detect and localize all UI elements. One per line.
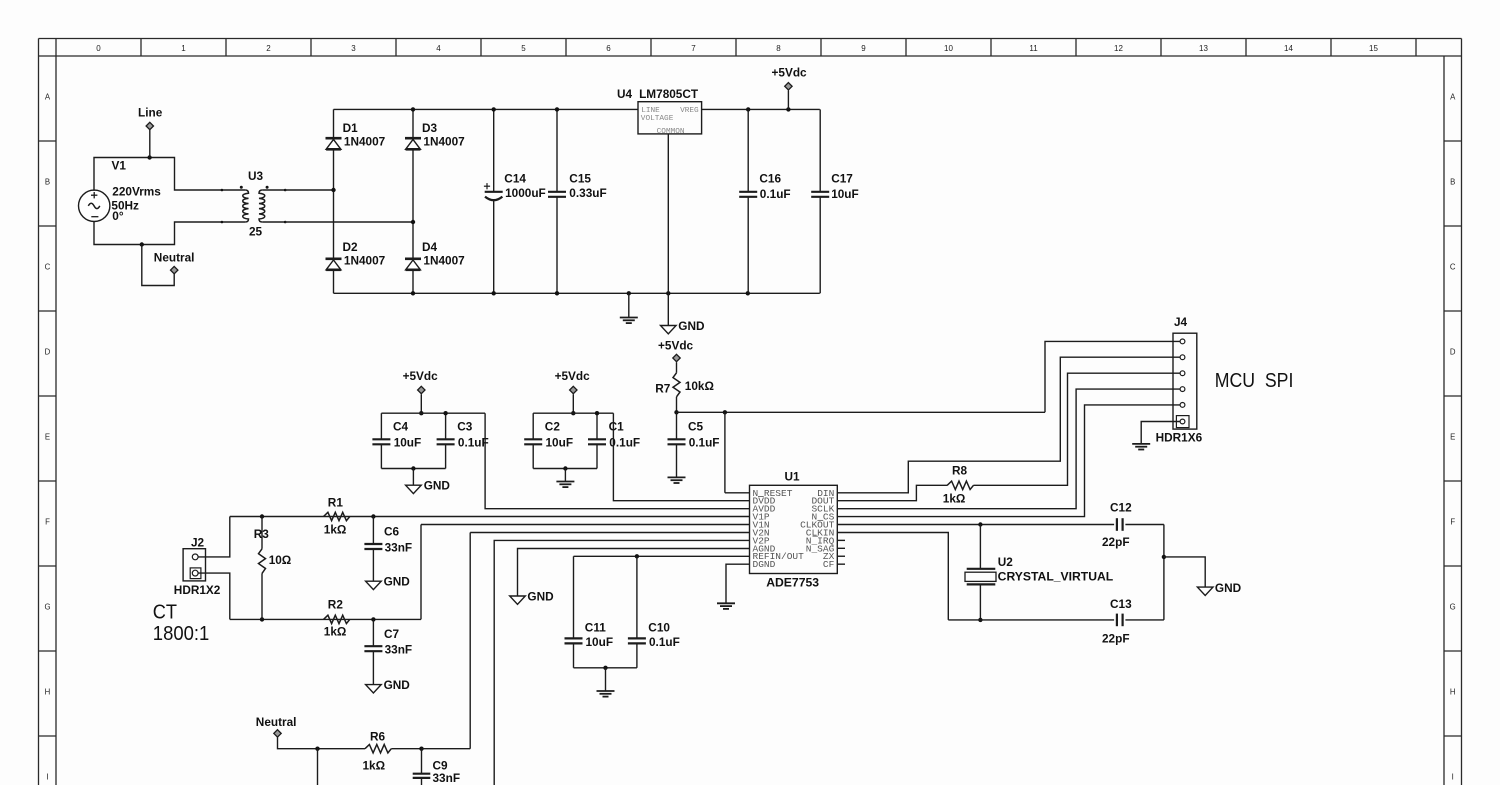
svg-text:1kΩ: 1kΩ xyxy=(363,759,386,773)
svg-text:R6: R6 xyxy=(370,730,386,744)
svg-text:I: I xyxy=(1452,773,1454,782)
svg-text:9: 9 xyxy=(861,44,866,53)
svg-text:U1: U1 xyxy=(785,469,801,483)
svg-text:10uF: 10uF xyxy=(831,187,859,201)
svg-text:A: A xyxy=(1450,93,1456,102)
svg-text:R8: R8 xyxy=(952,464,968,478)
svg-text:0.1uF: 0.1uF xyxy=(689,436,720,450)
svg-text:10: 10 xyxy=(944,44,953,53)
svg-text:C: C xyxy=(45,263,51,272)
svg-text:D: D xyxy=(45,348,51,357)
svg-text:H: H xyxy=(45,688,51,697)
svg-text:10kΩ: 10kΩ xyxy=(685,379,714,393)
svg-text:10uF: 10uF xyxy=(586,635,614,649)
svg-text:C5: C5 xyxy=(688,420,704,434)
svg-text:Line: Line xyxy=(138,106,163,120)
svg-text:Neutral: Neutral xyxy=(154,251,195,265)
svg-text:C12: C12 xyxy=(1110,501,1132,515)
svg-text:+5Vdc: +5Vdc xyxy=(403,369,439,383)
svg-text:Neutral: Neutral xyxy=(256,715,297,729)
svg-text:C15: C15 xyxy=(569,172,591,186)
svg-text:R2: R2 xyxy=(328,598,344,612)
svg-text:C7: C7 xyxy=(384,627,400,641)
svg-text:1kΩ: 1kΩ xyxy=(324,625,347,639)
svg-text:22pF: 22pF xyxy=(1102,632,1130,646)
svg-text:A: A xyxy=(45,93,51,102)
svg-text:6: 6 xyxy=(606,44,611,53)
svg-text:HDR1X2: HDR1X2 xyxy=(174,583,221,597)
svg-text:0.1uF: 0.1uF xyxy=(458,436,489,450)
svg-text:GND: GND xyxy=(384,575,411,589)
svg-text:0.1uF: 0.1uF xyxy=(649,635,680,649)
svg-text:GND: GND xyxy=(678,319,705,333)
svg-text:E: E xyxy=(1450,433,1455,442)
svg-text:HDR1X6: HDR1X6 xyxy=(1156,431,1203,445)
svg-text:LM7805CT: LM7805CT xyxy=(639,87,699,101)
svg-text:D: D xyxy=(1450,348,1456,357)
svg-text:1000uF: 1000uF xyxy=(505,186,546,200)
svg-text:C16: C16 xyxy=(759,172,781,186)
svg-text:C: C xyxy=(1450,263,1456,272)
svg-text:B: B xyxy=(45,178,50,187)
svg-text:ADE7753: ADE7753 xyxy=(766,575,819,589)
svg-text:0.33uF: 0.33uF xyxy=(569,186,606,200)
svg-text:5: 5 xyxy=(521,44,526,53)
svg-text:E: E xyxy=(45,433,50,442)
svg-text:C14: C14 xyxy=(504,172,526,186)
svg-text:GND: GND xyxy=(1215,581,1242,595)
svg-text:1: 1 xyxy=(181,44,186,53)
svg-text:33nF: 33nF xyxy=(385,540,413,554)
svg-text:VREG: VREG xyxy=(680,107,699,115)
svg-text:1N4007: 1N4007 xyxy=(423,135,465,149)
svg-text:VOLTAGE: VOLTAGE xyxy=(641,115,674,123)
svg-text:8: 8 xyxy=(776,44,781,53)
svg-text:C3: C3 xyxy=(457,420,473,434)
svg-text:G: G xyxy=(1450,603,1456,612)
svg-text:D4: D4 xyxy=(422,240,438,254)
svg-text:10uF: 10uF xyxy=(546,436,574,450)
svg-text:J4: J4 xyxy=(1174,315,1188,329)
svg-text:3: 3 xyxy=(351,44,356,53)
svg-text:R1: R1 xyxy=(328,495,344,509)
svg-text:V1: V1 xyxy=(112,159,127,173)
svg-text:1N4007: 1N4007 xyxy=(423,254,465,268)
svg-text:C13: C13 xyxy=(1110,597,1132,611)
svg-text:CF: CF xyxy=(823,559,835,570)
svg-text:J2: J2 xyxy=(191,536,205,550)
svg-text:11: 11 xyxy=(1029,44,1038,53)
svg-text:GND: GND xyxy=(527,590,554,604)
svg-text:+5Vdc: +5Vdc xyxy=(772,66,808,80)
svg-text:D3: D3 xyxy=(422,121,438,135)
svg-text:C17: C17 xyxy=(831,172,853,186)
svg-text:25: 25 xyxy=(249,225,263,239)
svg-text:F: F xyxy=(1450,518,1455,527)
svg-text:COMMON: COMMON xyxy=(657,128,685,136)
svg-text:CT: CT xyxy=(153,601,178,624)
svg-text:D1: D1 xyxy=(343,121,359,135)
svg-text:C11: C11 xyxy=(585,621,606,635)
svg-text:DGND: DGND xyxy=(753,559,776,570)
svg-text:GND: GND xyxy=(424,479,451,493)
svg-text:0°: 0° xyxy=(112,209,124,223)
svg-text:10uF: 10uF xyxy=(394,436,422,450)
svg-text:I: I xyxy=(46,773,48,782)
svg-text:MCU SPI: MCU SPI xyxy=(1215,369,1294,392)
svg-text:U4: U4 xyxy=(617,87,633,101)
svg-text:R7: R7 xyxy=(655,381,671,395)
svg-text:33nF: 33nF xyxy=(433,771,461,785)
svg-text:12: 12 xyxy=(1114,44,1123,53)
svg-text:33nF: 33nF xyxy=(385,643,413,657)
svg-text:CRYSTAL_VIRTUAL: CRYSTAL_VIRTUAL xyxy=(998,570,1113,584)
svg-text:1kΩ: 1kΩ xyxy=(324,522,347,536)
svg-text:R3: R3 xyxy=(254,527,270,541)
svg-text:2: 2 xyxy=(266,44,271,53)
svg-text:22pF: 22pF xyxy=(1102,535,1130,549)
svg-text:B: B xyxy=(1450,178,1455,187)
svg-text:1N4007: 1N4007 xyxy=(344,135,386,149)
svg-text:C10: C10 xyxy=(648,621,670,635)
svg-text:13: 13 xyxy=(1199,44,1208,53)
svg-text:0: 0 xyxy=(96,44,101,53)
svg-text:14: 14 xyxy=(1284,44,1293,53)
svg-text:C4: C4 xyxy=(393,420,409,434)
svg-text:1kΩ: 1kΩ xyxy=(943,492,966,506)
svg-text:C6: C6 xyxy=(384,524,400,538)
svg-text:10Ω: 10Ω xyxy=(269,553,292,567)
svg-text:0.1uF: 0.1uF xyxy=(760,187,791,201)
svg-text:15: 15 xyxy=(1369,44,1378,53)
svg-text:U3: U3 xyxy=(248,169,264,183)
svg-text:7: 7 xyxy=(691,44,696,53)
svg-text:H: H xyxy=(1450,688,1456,697)
svg-text:GND: GND xyxy=(384,678,411,692)
svg-text:+5Vdc: +5Vdc xyxy=(555,369,591,383)
svg-text:G: G xyxy=(44,603,50,612)
svg-text:U2: U2 xyxy=(998,555,1014,569)
svg-text:4: 4 xyxy=(436,44,441,53)
svg-text:D2: D2 xyxy=(343,240,359,254)
svg-text:F: F xyxy=(45,518,50,527)
svg-text:+5Vdc: +5Vdc xyxy=(658,339,694,353)
svg-text:C1: C1 xyxy=(609,420,625,434)
svg-text:220Vrms: 220Vrms xyxy=(112,185,161,199)
svg-text:1N4007: 1N4007 xyxy=(344,254,386,268)
svg-text:C2: C2 xyxy=(545,420,561,434)
svg-text:1800:1: 1800:1 xyxy=(153,622,210,645)
